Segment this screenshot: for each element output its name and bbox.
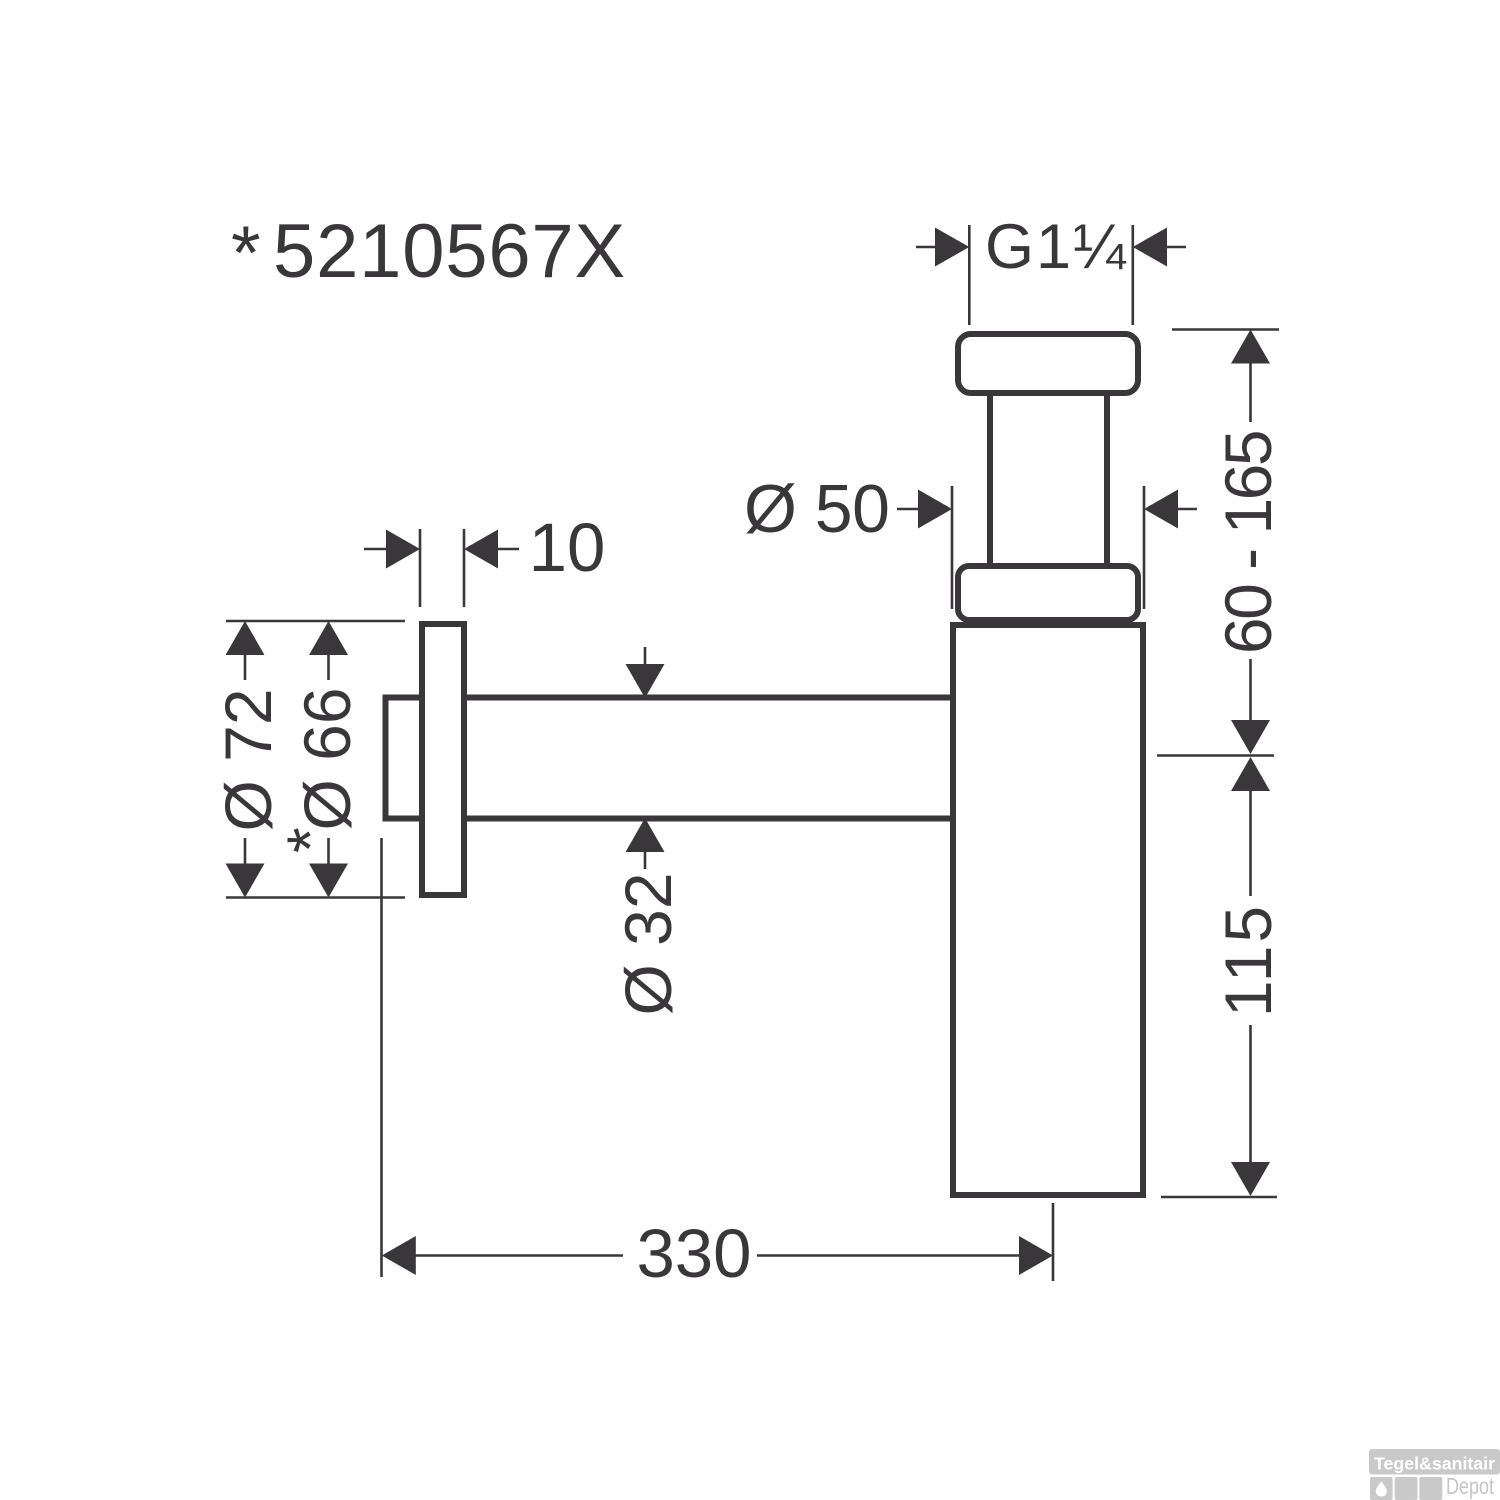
svg-text:60 - 165: 60 - 165 — [1211, 432, 1285, 654]
svg-text:Tegel&sanitair: Tegel&sanitair — [1374, 1454, 1495, 1474]
svg-text:Ø 72: Ø 72 — [211, 688, 285, 831]
dimension diameter 50 (body/nut) — [744, 471, 1197, 609]
dimension 115 (body height) — [1161, 757, 1285, 1197]
svg-text:Ø 32: Ø 32 — [611, 872, 685, 1015]
dimension diameter 72 (flange) — [211, 621, 405, 898]
dimension diameter 66 (escutcheon, starred) — [273, 621, 364, 898]
horizontal inlet pipe (wall side stub + pipe to body) — [386, 698, 951, 819]
lower union nut — [958, 566, 1138, 620]
dimension 60 - 165 (adjustable height) — [1157, 330, 1285, 756]
svg-text:Depot: Depot — [1446, 1473, 1494, 1499]
svg-text:G1¼: G1¼ — [985, 212, 1128, 282]
svg-text:10: 10 — [529, 509, 606, 586]
siphon body cylinder — [953, 625, 1143, 1195]
wall flange plate — [422, 624, 464, 895]
dimension G1 1/4 (top thread size) — [916, 212, 1186, 325]
vertical inlet tailpipe — [990, 396, 1107, 564]
svg-text:330: 330 — [636, 1215, 751, 1292]
watermark Tegel&sanitair Depot — [1369, 1449, 1500, 1500]
svg-text:*: * — [231, 211, 261, 296]
svg-text:Ø 50: Ø 50 — [744, 471, 889, 547]
svg-text:*: * — [273, 827, 347, 853]
top union nut — [958, 334, 1138, 393]
dimension 10 (flange thickness) — [364, 509, 605, 607]
dimension diameter 32 (pipe) — [611, 647, 685, 1016]
svg-text:Ø 66: Ø 66 — [290, 687, 364, 830]
article number label *5210567X — [231, 209, 626, 296]
svg-text:115: 115 — [1211, 903, 1285, 1017]
dimension 330 (wall to body) — [382, 838, 1054, 1292]
svg-text:5210567X: 5210567X — [273, 209, 626, 294]
